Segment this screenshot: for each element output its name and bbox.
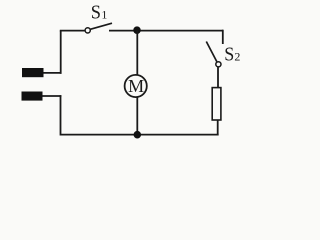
wire top-right corner stub [222,30,224,44]
svg-text:S: S [224,43,234,65]
switch S1 [85,23,112,33]
resistor R1 [212,88,221,120]
wire bottom rail [61,134,219,136]
svg-text:1: 1 [101,8,107,22]
label S2 [224,43,240,65]
wire top rail left segment [60,30,85,32]
svg-text:S: S [91,2,101,24]
wire J1 lead [43,72,61,74]
plug terminal J2 (bottom-left black lead) [22,92,43,101]
wire left vertical [60,31,62,74]
wire top rail right segment [109,30,223,32]
wire S2 to resistor [217,67,219,87]
wire motor top lead [136,31,138,76]
wire resistor bottom lead [217,121,219,136]
motor U1 [125,75,147,97]
label S1 [91,2,108,24]
wire J2 lead [42,95,61,97]
node bottom junction [134,131,142,139]
switch S2 [206,42,221,67]
wire bottom-left vertical [60,95,62,135]
plug terminal J1 (top-left black lead) [22,68,44,77]
wire motor bottom lead [136,97,138,135]
svg-text:M: M [128,76,144,96]
svg-text:2: 2 [234,50,240,64]
node top junction [133,26,141,34]
